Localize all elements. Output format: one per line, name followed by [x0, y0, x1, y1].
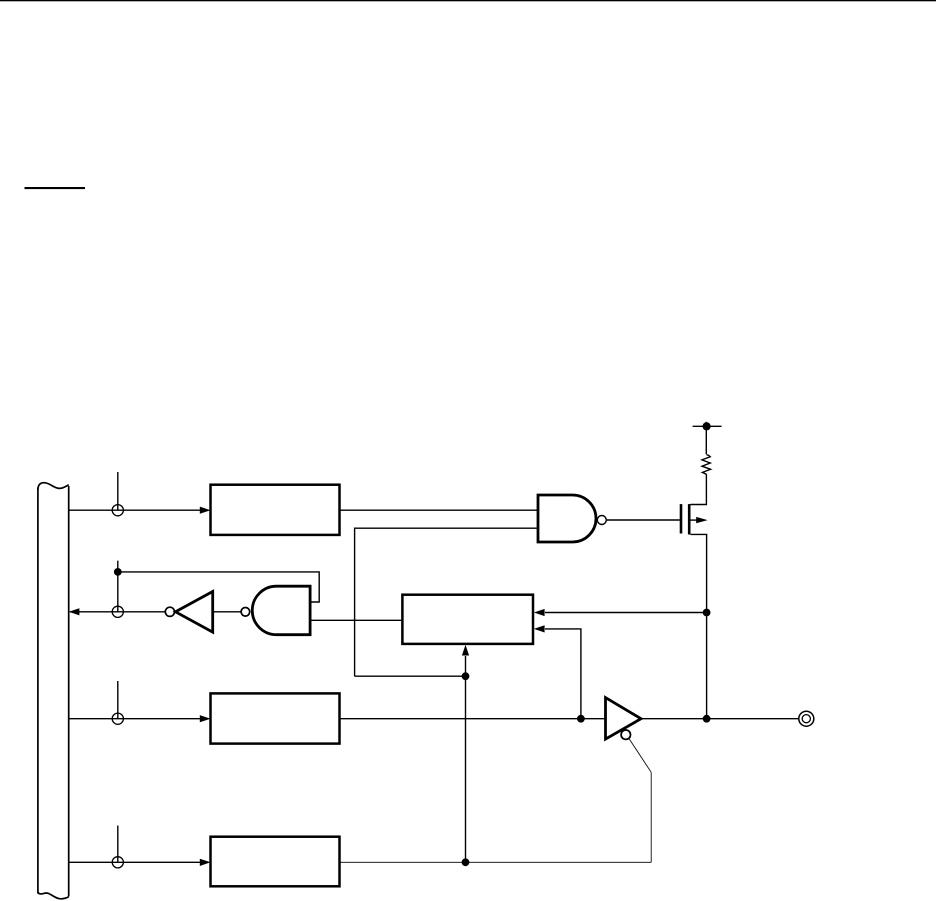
stem above row4 node circle — [117, 826, 119, 863]
wire: horizontal link to node column — [355, 675, 466, 677]
wire: FET drain down to output node — [691, 534, 707, 718]
wire: row3 bus to box3 — [69, 718, 200, 720]
stem above row1 node circle — [117, 472, 119, 510]
arrowhead into bus (row2) — [69, 608, 80, 615]
junction dot buffer input — [577, 715, 585, 723]
node circle row4 — [112, 857, 123, 868]
wire: buffer output to pin — [641, 718, 799, 720]
junction dot node column — [462, 672, 470, 680]
wire: FET node to middle box input1 — [545, 612, 707, 614]
wire: NAND U2 bottom input to middle box — [310, 619, 402, 621]
arrowhead into middle box bottom — [462, 645, 469, 656]
signal name overline (top left rule) — [25, 187, 86, 189]
pin pad outer circle — [799, 711, 814, 726]
box1 (output latch) — [211, 485, 340, 535]
wrap wire row2: dot to NAND U2 top input — [118, 572, 319, 602]
internal bus symbol — [38, 483, 69, 899]
junction dot output node — [703, 715, 711, 723]
power rail — [693, 425, 722, 427]
wire: inverter input to NAND U2 bubble — [213, 611, 241, 613]
node circle row2 — [112, 606, 123, 617]
transistor Q1 channel bar — [688, 504, 691, 534]
resistor (pull-up) — [702, 455, 711, 475]
wire: NAND U1 input2 from node vertical — [355, 528, 538, 676]
arrowhead into middle box input1 — [534, 609, 545, 616]
arrowhead into box4 — [200, 859, 211, 866]
wire: row2 bus line through node circle to inverter bubble — [70, 611, 165, 613]
buffer enable bubble — [621, 730, 630, 739]
wire: buffer input node up to middle box input2 — [545, 629, 581, 719]
transistor Q1 body arrow — [691, 519, 698, 521]
box3 (output latch 2) — [211, 693, 340, 743]
node circle row1 — [112, 505, 123, 516]
wire: row1 bus to box1 — [69, 509, 200, 511]
arrowhead into middle box input2 — [534, 625, 545, 632]
pin pad inner circle — [802, 715, 810, 723]
NAND gate U1 — [538, 495, 596, 542]
arrowhead into box1 — [200, 507, 211, 514]
wire: enable vertical down (thin) — [650, 772, 652, 862]
node circle row3 — [112, 713, 123, 724]
wire: resistor to FET source — [691, 474, 707, 504]
junction dot row2 stem — [114, 568, 122, 576]
stem above row3 node circle — [117, 681, 119, 719]
wire: box4 output to enable column (thin) — [340, 861, 652, 863]
wire: box3 output to buffer input — [340, 718, 606, 720]
wire: NAND U1 output to FET gate — [606, 519, 679, 521]
inverter U3 output bubble — [165, 607, 174, 616]
power junction dot — [703, 422, 711, 430]
transistor Q1 gate bar — [680, 504, 683, 533]
wire: power stub and drop to resistor — [705, 422, 707, 455]
wire: node column up into middle box bottom — [465, 656, 467, 862]
box4 (mode register) — [211, 837, 340, 887]
junction dot row4 — [462, 858, 470, 866]
stem above row2 node circle — [117, 561, 119, 612]
wire: box1 output to NAND U1 input1 — [340, 509, 539, 511]
junction dot at FET line / input1 — [703, 609, 711, 617]
output buffer U4 — [606, 698, 642, 740]
inverter U3 (points left) — [176, 592, 213, 633]
wire: row4 bus to box4 — [69, 861, 200, 863]
NAND U1 output bubble — [597, 516, 606, 525]
NAND U2 output bubble — [241, 608, 250, 617]
middle box (read controller) — [402, 595, 533, 644]
page top border rule — [0, 0, 936, 1]
arrowhead into box3 — [200, 715, 211, 722]
NAND gate U2 (mirrored, inputs on right) — [252, 586, 310, 635]
wire: enable bubble diagonal (thin) — [629, 739, 651, 772]
